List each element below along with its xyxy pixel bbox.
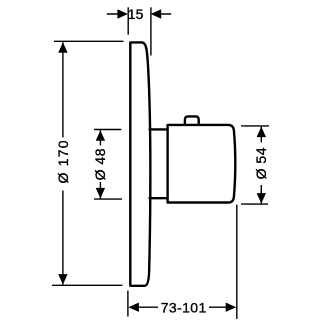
dimension Ø170 line lower segment [62,191,64,285]
dimension Ø170 arrow up [58,42,67,53]
dimension 73-101 extension line right [236,205,238,319]
dimension Ø54 line lower segment [260,185,262,204]
svg-text:73-101: 73-101 [161,300,207,316]
dimension 73-101 line right segment [209,306,228,308]
dimension Ø54 line upper segment [260,127,262,143]
thermostat knob (Ø54) [168,125,236,203]
sleeve bottom edge [150,197,168,199]
dimension 15 arrow right [151,9,162,18]
dimension Ø170 arrow down [58,274,67,285]
dimension 73-101 arrow right [226,303,237,312]
svg-text:Ø 54: Ø 54 [253,147,269,179]
dimension Ø48 extension line bottom [94,198,122,200]
dimension Ø170 line upper segment [62,42,64,137]
dimension Ø54 extension line bottom [241,203,268,205]
dimension Ø170 extension line bottom [52,284,123,286]
dimension Ø48 arrow down [96,188,105,199]
dimension Ø54 extension line top [241,125,269,127]
sleeve top edge (Ø48 stop ring) [150,128,168,130]
escutcheon plate (side profile, Ø170) [130,42,150,285]
dimension 15 leader right [155,13,172,15]
dimension 15 arrow left [117,9,128,18]
dimension 73-101 extension line left [127,291,129,317]
dimension 73-101 arrow left [128,303,139,312]
svg-text:Ø 170: Ø 170 [55,139,71,183]
dimension 73-101 line left segment [137,306,158,308]
grip marker bump on knob [185,116,199,124]
dimension Ø48 arrow up [96,130,105,141]
dimension 15 leader left [107,13,124,15]
dimension Ø170 extension line top [54,40,124,42]
dimension Ø48 line upper segment [99,130,101,146]
dimension 15 extension line left [127,7,129,35]
dimension 15 extension line right [150,7,152,55]
dimension Ø54 arrow up [257,127,266,138]
dimension Ø48 extension line top [94,129,121,131]
dimension Ø54 arrow down [257,193,266,204]
dimension Ø48 line lower segment [99,182,101,199]
svg-text:Ø 48: Ø 48 [92,148,108,180]
svg-text:15: 15 [128,6,144,22]
